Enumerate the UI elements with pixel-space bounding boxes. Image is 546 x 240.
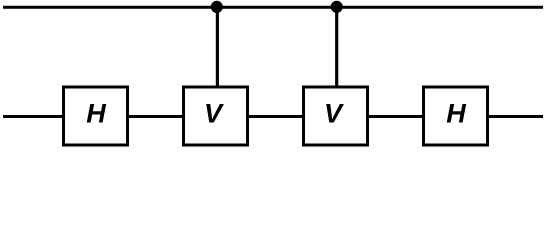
gate V2 box — [304, 87, 368, 145]
node: control dot 1 on q0 — [211, 1, 223, 13]
svg-text:H: H — [86, 99, 106, 129]
wire: qubit line q1 (bottom) — [3, 115, 543, 118]
wire: qubit line q0 (top) — [3, 6, 543, 9]
gate H1 box — [64, 87, 128, 145]
gate H2 box — [424, 87, 488, 145]
svg-text:V: V — [324, 99, 344, 129]
wire: control link from q0 to gate V2 — [335, 7, 338, 88]
svg-text:H: H — [446, 99, 466, 129]
wire: control link from q0 to gate V1 — [216, 7, 219, 88]
svg-text:V: V — [204, 99, 224, 129]
node: control dot 2 on q0 — [331, 1, 343, 13]
gate V1 box — [184, 87, 248, 145]
